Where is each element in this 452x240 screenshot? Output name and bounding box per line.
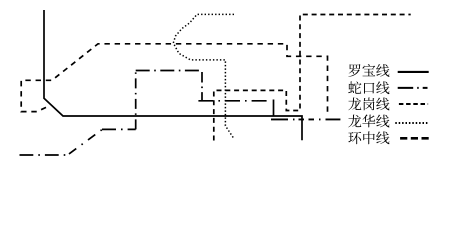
蛇口线 Shekou line (dash-dot): bottom-left horizontal bbox=[20, 154, 68, 156]
legend swatch shekou dash-dot bbox=[398, 87, 428, 89]
legend swatch longgang dashed bbox=[399, 103, 428, 105]
罗宝线 Luobao line (solid): vertical, diagonal, long horizontal, end drop bbox=[44, 10, 302, 140]
蛇口线 horizontal y=70.5 bbox=[136, 70, 202, 72]
环中线 Huanzhong line (long dash) bbox=[214, 15, 411, 141]
legend swatch huanzhong bold dash bbox=[400, 137, 429, 140]
龙华线 Longhua line (dotted) hairpin and drop bbox=[173, 14, 234, 138]
legend label 罗宝线 bbox=[348, 64, 389, 77]
legend label 环中线 bbox=[348, 131, 389, 144]
蛇口线 diagonal rise bbox=[69, 130, 102, 154]
legend label 蛇口线 bbox=[348, 81, 389, 94]
legend swatch longhua dotted bbox=[395, 122, 427, 124]
蛇口线 horizontal y=129.4 bbox=[102, 128, 136, 130]
legend label 龙岗线 bbox=[348, 97, 389, 110]
蛇口线 horizontal y=100.8 bbox=[198, 100, 268, 102]
龙岗线 Longgang line (dashed) bbox=[21, 44, 327, 116]
蛇口线 vertical x=202 bbox=[201, 72, 203, 101]
蛇口线 vertical connector near x=273 bbox=[273, 100, 275, 117]
legend swatch luobao solid bbox=[398, 71, 429, 73]
蛇口线 lower-right run bbox=[271, 118, 340, 120]
蛇口线 vertical x=135.7 bbox=[135, 71, 137, 130]
legend label 龙华线 bbox=[348, 115, 389, 128]
